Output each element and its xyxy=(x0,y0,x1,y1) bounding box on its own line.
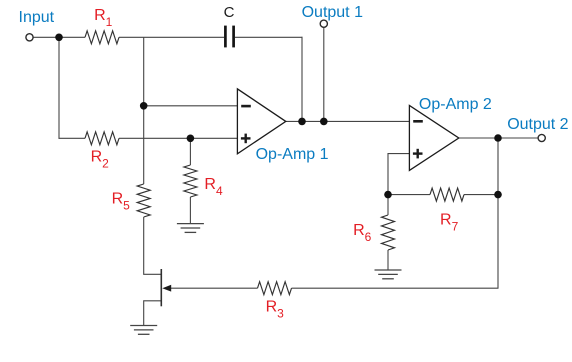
svg-text:Op-Amp 1: Op-Amp 1 xyxy=(256,146,329,163)
wire R5 bottom down to transistor drain xyxy=(144,217,161,274)
wire R4 stub from plus node down to R4 xyxy=(189,138,191,165)
resistor R3 xyxy=(258,282,292,295)
resistor R1 xyxy=(85,31,119,44)
resistor R4 xyxy=(184,165,197,197)
wire R7 row right segment xyxy=(464,194,498,196)
wire op-amp1 output to op-amp2 inverting input xyxy=(286,120,410,122)
svg-text:Output 1: Output 1 xyxy=(302,4,363,21)
svg-text:Input: Input xyxy=(19,9,55,26)
node R6-R7 junction xyxy=(384,191,392,199)
svg-text:Op-Amp 2: Op-Amp 2 xyxy=(419,96,492,113)
resistor R7 xyxy=(430,188,464,201)
wire vertical cap branch down to op-amp1 output node xyxy=(301,37,303,122)
svg-text:C: C xyxy=(224,4,235,21)
ground under transistor source xyxy=(130,326,157,335)
node inverting input junction xyxy=(140,102,148,110)
resistor R2 xyxy=(85,132,119,145)
ground under R6 xyxy=(375,270,402,279)
node input junction xyxy=(55,34,63,42)
ground under R4 xyxy=(177,224,204,233)
node R7 right junction xyxy=(494,191,502,199)
node Output2 junction xyxy=(494,134,502,142)
wire R3 right to feedback vertical xyxy=(292,287,499,289)
node R4 junction xyxy=(187,135,195,143)
wire R2 row left segment xyxy=(59,137,86,139)
wire op-amp2 plus input to feedback node xyxy=(388,154,409,195)
input terminal xyxy=(26,34,33,41)
wire R4 bottom to ground xyxy=(189,197,191,223)
wire R6 bottom to ground xyxy=(387,250,389,270)
Output 1 terminal xyxy=(320,20,327,27)
svg-text:Output 2: Output 2 xyxy=(507,116,568,133)
wire op-amp2 output to Output2 terminal xyxy=(459,137,538,139)
node op-amp1 output junction (cap branch) xyxy=(298,118,306,126)
op-amp U1 xyxy=(237,89,328,163)
Output 2 terminal xyxy=(538,134,545,141)
wire gate line from R3 to transistor arrow xyxy=(171,287,258,289)
wire R7 row left segment xyxy=(388,194,430,196)
wire input terminal to junction xyxy=(33,36,85,38)
wire minus-node vertical x=144 from top wire down to R5 xyxy=(143,37,145,184)
wire Output1 vertical drop xyxy=(323,27,325,121)
wire capacitor to top-right corner xyxy=(235,36,303,38)
wire R1 right to capacitor xyxy=(119,36,224,38)
wire input branch vertical down to R2 row xyxy=(58,37,60,139)
wire R6 stub from node xyxy=(387,195,389,215)
wire minus node to op-amp1 inverting input xyxy=(144,105,238,107)
node Output1 junction xyxy=(320,118,328,126)
op-amp U2 xyxy=(409,96,492,171)
wire transistor source to ground xyxy=(144,301,161,325)
capacitor C xyxy=(224,4,235,48)
wire R2 right to op-amp1 non-inverting input xyxy=(119,137,237,139)
resistor R6 xyxy=(382,215,395,250)
wire right feedback vertical xyxy=(497,138,499,288)
transistor Q1 (JFET) xyxy=(161,269,171,306)
resistor R5 xyxy=(137,184,150,217)
